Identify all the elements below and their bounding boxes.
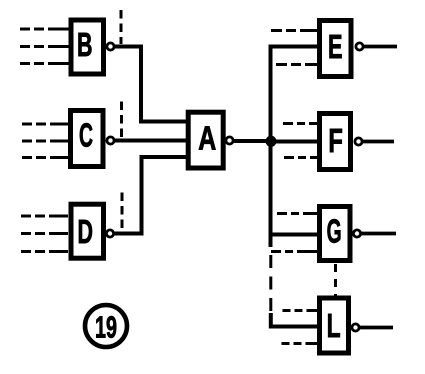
dashed stub above C output: [120, 102, 123, 139]
gate D output bubble: [106, 230, 113, 237]
svg-text:F: F: [328, 122, 343, 159]
gate L output bubble: [352, 324, 359, 331]
gate A output bubble: [226, 137, 233, 144]
dashed link G to L: [334, 264, 337, 296]
gate F output line: [363, 140, 395, 144]
vertical bus E-junction-G: [271, 47, 318, 235]
svg-text:G: G: [327, 213, 342, 250]
gate F output bubble: [355, 138, 362, 145]
gate G output line: [361, 232, 396, 236]
svg-text:B: B: [77, 26, 93, 63]
gate L output line: [360, 326, 394, 330]
wire B to A: [115, 47, 187, 122]
wire D to A: [114, 157, 187, 234]
junction dot: [266, 136, 277, 147]
gate E output line: [364, 45, 398, 49]
gate C inputs (dashed): [22, 124, 68, 158]
svg-text:E: E: [328, 28, 343, 65]
dashed stub above B output: [120, 10, 123, 44]
svg-text:19: 19: [95, 310, 117, 345]
gate B inputs (dashed): [20, 29, 69, 64]
wire A to junction: [234, 139, 272, 143]
svg-text:A: A: [198, 120, 216, 157]
gate G output bubble: [353, 230, 360, 237]
gate A: [188, 112, 223, 168]
gate F dashed inputs: [283, 124, 317, 158]
gate E output bubble: [356, 43, 363, 50]
wire C to A: [115, 139, 187, 143]
gate D: [71, 204, 104, 258]
gate C: [71, 111, 104, 167]
gate E: [320, 21, 352, 77]
gate F: [320, 114, 351, 170]
gate G: [320, 207, 351, 261]
dashed stub above D output: [121, 193, 124, 231]
figure number circle 19: [85, 305, 127, 347]
gate E dashed inputs: [271, 31, 317, 65]
bus solid tail below G input: [269, 235, 273, 248]
gate B output bubble: [107, 43, 114, 50]
gate L dashed inputs: [282, 311, 318, 344]
wire corner into L input: [271, 313, 317, 327]
svg-text:L: L: [327, 307, 341, 344]
gate C output bubble: [107, 137, 114, 144]
svg-text:D: D: [77, 213, 93, 250]
dashed bus segment down to L: [269, 255, 272, 313]
gate L: [320, 298, 349, 353]
gate F input wire: [271, 140, 317, 144]
gate G dashed inputs: [271, 214, 317, 252]
gate D inputs (dashed): [21, 216, 68, 252]
gate B: [71, 20, 104, 74]
svg-text:C: C: [79, 116, 93, 153]
